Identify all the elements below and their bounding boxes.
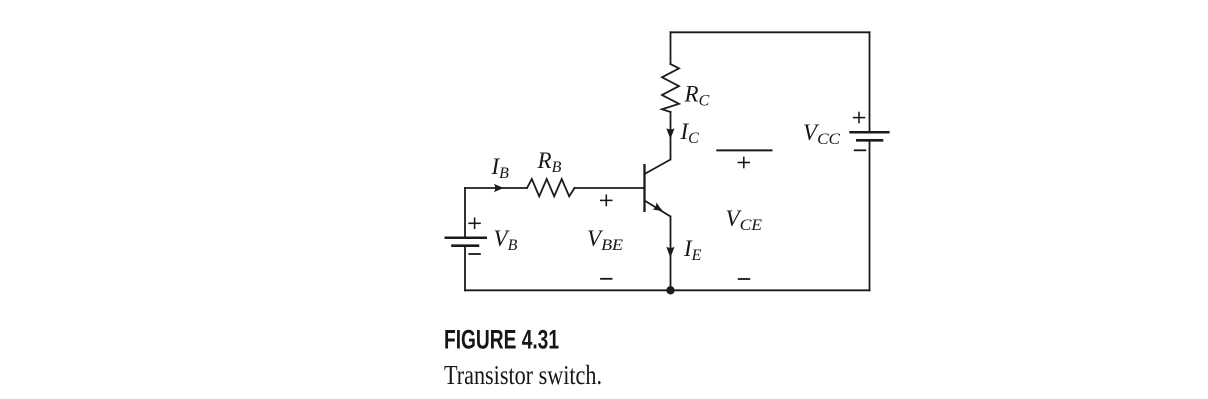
resistor RC zigzag bbox=[662, 64, 679, 112]
wire right vertical lower (Vcc - terminal to ground rail) bbox=[869, 142, 871, 291]
wire base horizontal left segment bbox=[465, 187, 527, 189]
svg-text:VBE: VBE bbox=[587, 226, 624, 254]
svg-text:IB: IB bbox=[491, 154, 510, 182]
wire left vertical upper (VB + terminal) bbox=[464, 188, 466, 237]
svg-text:VB: VB bbox=[494, 226, 518, 254]
svg-text:IE: IE bbox=[683, 236, 702, 264]
battery VB minus sign bbox=[468, 253, 480, 255]
VBE minus sign bbox=[600, 278, 612, 280]
svg-text:IC: IC bbox=[680, 119, 700, 147]
svg-text:RC: RC bbox=[684, 81, 710, 109]
VCE polarity bar bbox=[716, 149, 772, 151]
current arrow IB bbox=[494, 184, 504, 192]
current arrow IC bbox=[666, 128, 674, 139]
transistor Q1 (NPN) bbox=[645, 160, 671, 217]
battery VCC plus sign bbox=[853, 112, 866, 124]
battery VCC bbox=[849, 132, 889, 140]
svg-text:Transistor switch.: Transistor switch. bbox=[444, 360, 602, 390]
current arrow IE bbox=[666, 247, 674, 258]
wire base horizontal right segment bbox=[575, 187, 644, 189]
svg-text:VCC: VCC bbox=[803, 120, 841, 148]
resistor RB zigzag bbox=[527, 179, 575, 196]
VCE plus sign bbox=[738, 157, 751, 169]
svg-text:RB: RB bbox=[537, 148, 562, 176]
wire emitter vertical bbox=[670, 217, 672, 291]
svg-text:FIGURE 4.31: FIGURE 4.31 bbox=[444, 325, 559, 355]
wire top horizontal (collector rail to Vcc) bbox=[671, 31, 870, 33]
junction node (emitter to common rail) bbox=[666, 286, 674, 294]
wire left vertical lower (VB - terminal) bbox=[464, 247, 466, 290]
wire collector vertical above resistor RC bbox=[670, 32, 672, 64]
svg-text:VCE: VCE bbox=[726, 206, 763, 234]
battery VB bbox=[445, 238, 488, 246]
wire right vertical upper (Vcc + terminal) bbox=[869, 32, 871, 131]
wire collector vertical below resistor RC bbox=[670, 112, 672, 160]
wire bottom horizontal (common rail) bbox=[465, 289, 870, 291]
transistor Q1 emitter arrowhead bbox=[653, 202, 664, 212]
battery VCC minus sign bbox=[854, 149, 866, 151]
battery VB plus sign bbox=[468, 217, 481, 229]
VCE minus sign bbox=[738, 278, 750, 280]
VBE plus sign bbox=[600, 195, 613, 207]
